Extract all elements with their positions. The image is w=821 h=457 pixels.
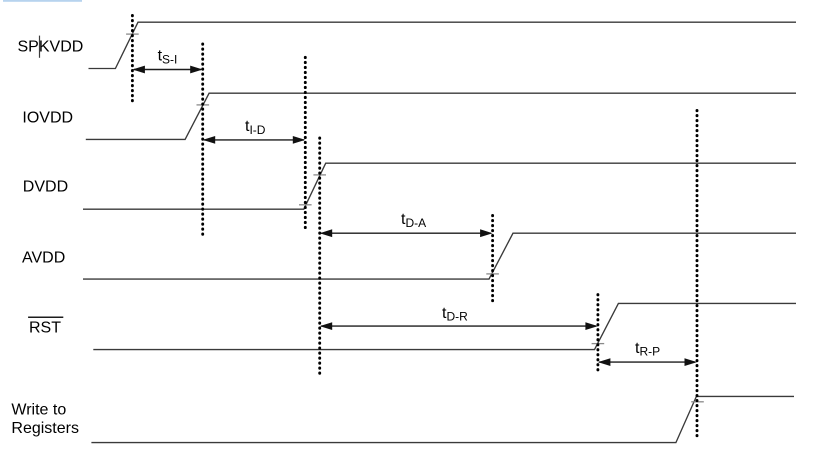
svg-text:tI-D: tI-D — [245, 118, 266, 137]
svg-text:RST: RST — [29, 320, 61, 337]
svg-text:IOVDD: IOVDD — [22, 110, 73, 127]
svg-text:Registers: Registers — [11, 420, 79, 437]
svg-text:tR-P: tR-P — [635, 340, 660, 359]
svg-text:AVDD: AVDD — [22, 249, 65, 266]
svg-text:DVDD: DVDD — [23, 179, 68, 196]
svg-text:SPKVDD: SPKVDD — [18, 39, 84, 56]
svg-text:Write to: Write to — [11, 402, 66, 419]
svg-text:tS-I: tS-I — [158, 48, 178, 67]
svg-text:tD-A: tD-A — [401, 211, 426, 230]
svg-text:tD-R: tD-R — [442, 305, 468, 324]
